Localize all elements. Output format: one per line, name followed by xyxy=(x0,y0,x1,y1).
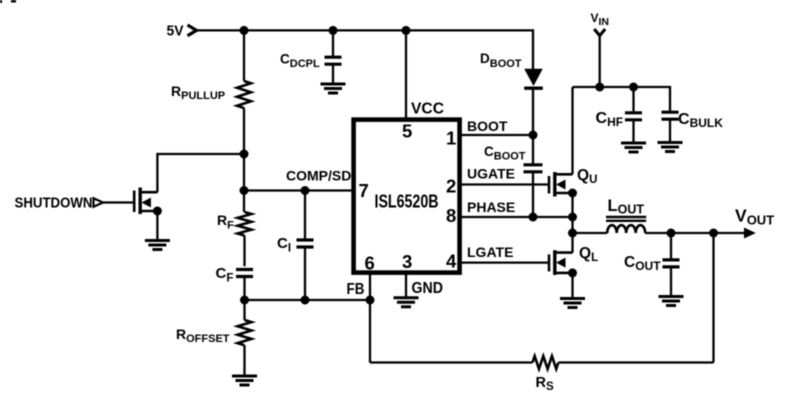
wire CBULK bottom xyxy=(669,119,671,141)
wire QU source down xyxy=(571,193,573,233)
junction 5V/RPULLUP xyxy=(240,26,249,35)
resistor RF xyxy=(238,212,252,236)
junction shutdown source xyxy=(153,207,162,216)
wire RS rail right xyxy=(558,361,713,363)
ground QL xyxy=(560,297,585,300)
junction phase node xyxy=(568,229,577,238)
wire RS rail left xyxy=(370,361,533,363)
junction QU source xyxy=(568,189,577,198)
svg-text:LGATE: LGATE xyxy=(467,244,513,260)
ground IC GND xyxy=(394,296,419,299)
wire COUT bottom xyxy=(670,267,672,296)
junction FB node xyxy=(366,296,375,305)
junction CHF xyxy=(629,83,638,92)
svg-text:4: 4 xyxy=(446,250,457,271)
wire CBOOT top xyxy=(532,135,534,165)
ground CDCPL xyxy=(321,83,346,86)
capacitor CBULK xyxy=(662,111,679,114)
junction VIN/rail xyxy=(595,83,604,92)
junction shutdown branch xyxy=(240,150,249,159)
junction QL source xyxy=(568,268,577,277)
junction RS riser xyxy=(709,229,718,238)
VIN input chevron xyxy=(594,29,605,36)
wire CF to FB rail xyxy=(243,277,245,301)
capacitor CBOOT xyxy=(524,163,543,166)
inductor LOUT xyxy=(607,225,645,233)
resistor ROFFSET xyxy=(238,320,252,345)
resistor RPULLUP xyxy=(237,81,251,108)
wire shutdown source to ground xyxy=(156,211,158,240)
capacitor CHF xyxy=(625,111,642,114)
resistor RS xyxy=(533,356,559,369)
junction BOOT/CBOOT xyxy=(529,131,538,140)
wire BOOT pin 1 xyxy=(460,134,533,136)
wire VCC pin 5 xyxy=(405,30,407,120)
junction PHASE/QU xyxy=(568,213,577,222)
transistor QU xyxy=(460,172,573,197)
wire phase to LOUT xyxy=(573,232,608,234)
wire CDCPL bottom xyxy=(332,64,334,82)
wire LOUT to VOUT xyxy=(645,232,744,234)
wire CBOOT to PHASE xyxy=(532,172,534,217)
wire RF to CF xyxy=(243,236,245,267)
SHUTDOWN input arrow xyxy=(94,198,104,207)
svg-text:2: 2 xyxy=(446,175,456,196)
wire VIN drop xyxy=(599,35,601,87)
svg-text:COMP/SD: COMP/SD xyxy=(286,168,351,184)
wire QL source to ground xyxy=(571,273,573,298)
wire VIN to QU drain xyxy=(571,87,573,174)
wire CHF bottom xyxy=(632,120,634,142)
ground CBULK xyxy=(658,141,683,144)
svg-text:1: 1 xyxy=(446,128,456,149)
svg-text:FB: FB xyxy=(347,281,365,298)
wire 5V rail to diode anode xyxy=(197,30,534,69)
svg-text:8: 8 xyxy=(446,205,456,226)
wire shutdown drain xyxy=(157,154,244,192)
wire CDCPL top xyxy=(332,30,334,56)
svg-text:SHUTDOWN: SHUTDOWN xyxy=(15,196,93,212)
wire phase node to QL drain xyxy=(571,233,573,253)
svg-text:UGATE: UGATE xyxy=(467,166,515,182)
wire CI bottom xyxy=(304,247,306,300)
wire CHF top xyxy=(632,87,634,113)
junction CI/FB rail xyxy=(301,296,310,305)
junction 5V/VCC xyxy=(402,26,411,35)
capacitor CF xyxy=(236,268,253,271)
ground ROFFSET xyxy=(232,375,257,378)
artifact marks top-left xyxy=(0,0,2,3)
svg-text:7: 7 xyxy=(359,180,369,201)
junction COMP node xyxy=(240,186,249,195)
svg-text:3: 3 xyxy=(402,251,412,272)
wire GND pin 3 xyxy=(405,273,407,297)
junction 5V/CDCPL xyxy=(329,26,338,35)
wire COMP/SD xyxy=(244,189,354,191)
svg-text:ISL6520B: ISL6520B xyxy=(375,191,439,212)
svg-text:BOOT: BOOT xyxy=(467,118,508,134)
junction PHASE/CBOOT xyxy=(529,213,538,222)
capacitor CI xyxy=(297,238,314,241)
svg-text:PHASE: PHASE xyxy=(467,199,515,215)
wire diode to BOOT xyxy=(532,88,534,135)
diode DBOOT xyxy=(524,69,543,86)
svg-text:5V: 5V xyxy=(167,22,184,39)
ground CHF xyxy=(621,142,646,145)
transistor Q-shutdown xyxy=(103,188,157,215)
wire PHASE pin 8 xyxy=(460,216,573,218)
wire VIN rail xyxy=(573,87,671,112)
wire to ROFFSET xyxy=(243,300,245,320)
ground shutdown xyxy=(145,239,170,242)
junction COUT xyxy=(667,229,676,238)
capacitor CDCPL xyxy=(325,56,342,59)
transistor QL xyxy=(460,250,573,275)
svg-text:6: 6 xyxy=(365,253,375,274)
junction CF/FB rail xyxy=(240,296,249,305)
junction CI top xyxy=(301,186,310,195)
wire FB rail xyxy=(245,299,371,301)
wire COUT top xyxy=(670,233,672,260)
5V input chevron xyxy=(188,25,197,36)
wire CI top xyxy=(304,191,306,241)
op-amp U1 ISL6520B box xyxy=(354,120,460,273)
wire VOUT riser xyxy=(712,233,714,363)
capacitor COUT xyxy=(663,258,680,261)
svg-text:VCC: VCC xyxy=(411,101,444,118)
wire 5V to RPULLUP xyxy=(243,30,245,81)
wire RPULLUP to RF xyxy=(243,108,245,212)
wire ROFFSET to ground xyxy=(243,345,245,375)
wire FB pin 6 xyxy=(369,273,371,300)
VOUT arrowhead xyxy=(744,228,756,239)
wire FB to RS rail xyxy=(369,300,371,363)
svg-text:GND: GND xyxy=(412,280,444,297)
svg-text:5: 5 xyxy=(402,121,412,142)
ground COUT xyxy=(659,295,684,298)
